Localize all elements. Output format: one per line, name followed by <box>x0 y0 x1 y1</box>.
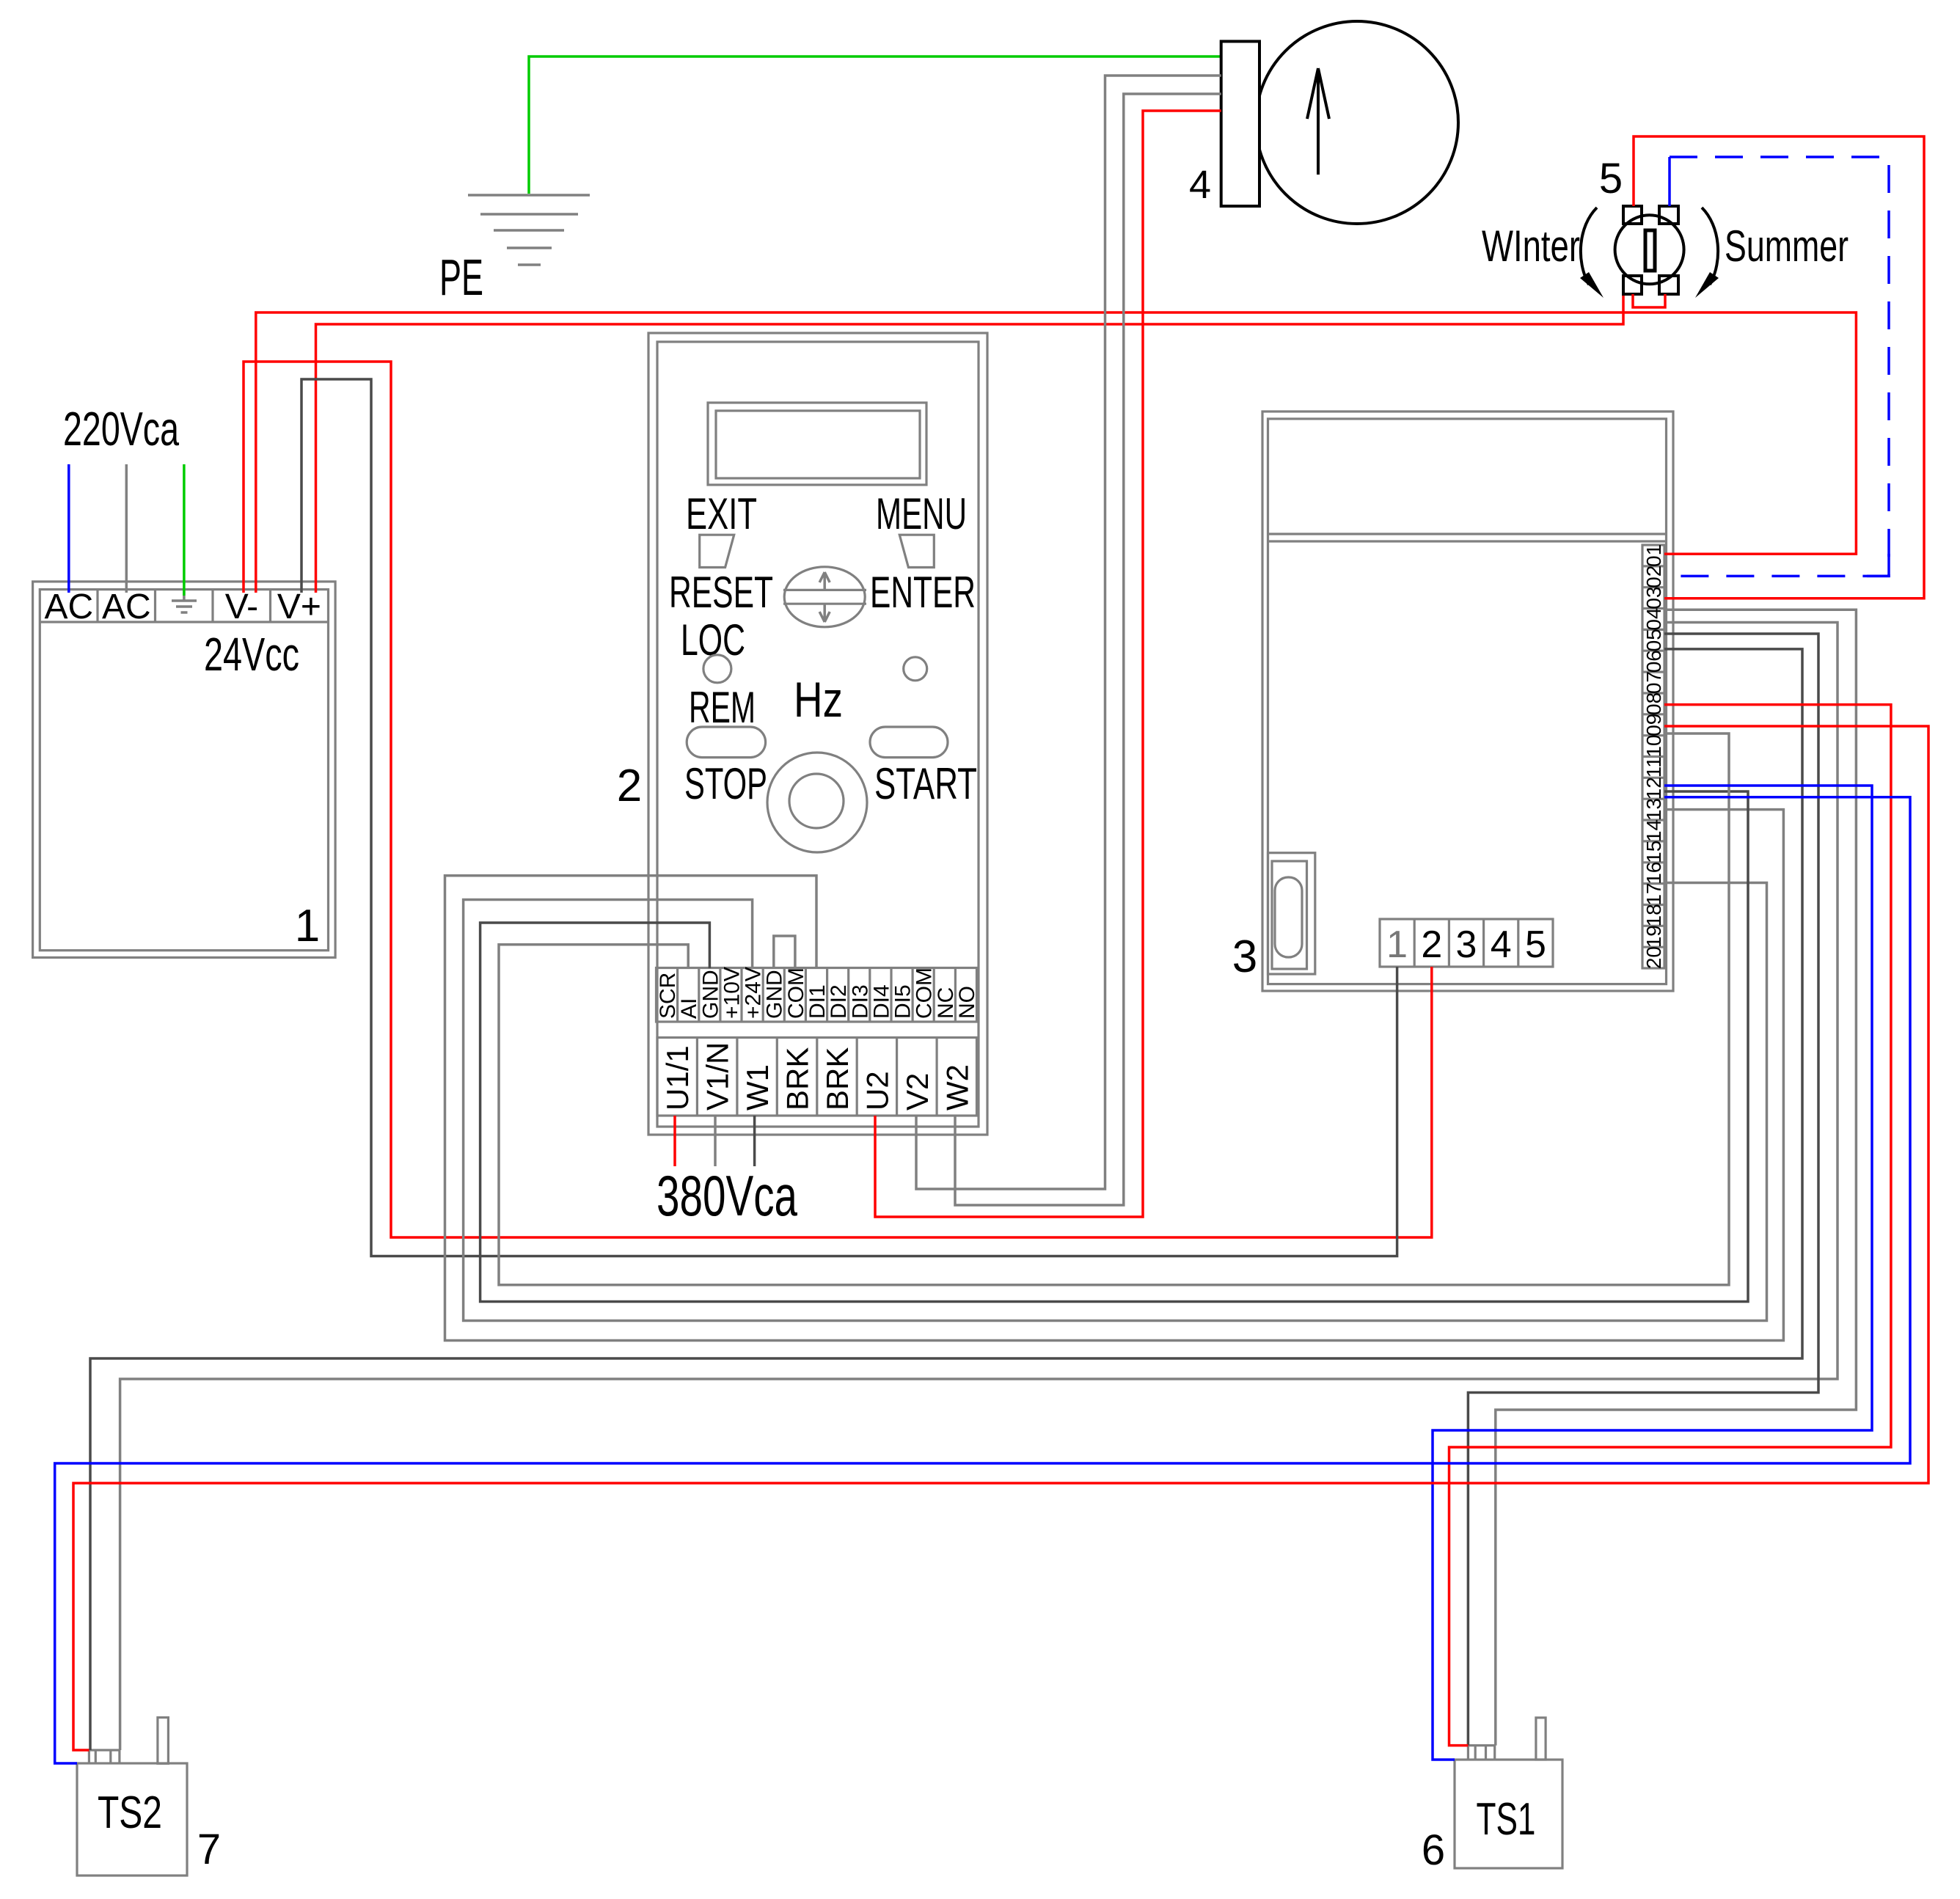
wire blue solid elbow at dashed corner <box>1867 554 1889 576</box>
svg-text:U1/1: U1/1 <box>660 1045 695 1111</box>
ground symbol PE <box>468 195 590 265</box>
svg-text:16: 16 <box>1642 862 1665 885</box>
svg-text:STOP: STOP <box>684 759 767 808</box>
LOC LED <box>703 655 731 683</box>
svg-text:BRK: BRK <box>780 1047 815 1111</box>
START button pill <box>870 727 948 758</box>
controller bottom terminal strip 1-5 <box>1380 919 1553 967</box>
controller top band divider <box>1268 534 1667 541</box>
svg-text:08: 08 <box>1642 692 1665 715</box>
wire PE green to fan motor <box>529 56 1221 194</box>
controller D-sub connector inner <box>1272 861 1307 969</box>
wire blue switch top-right tab vertical <box>1668 157 1671 206</box>
winter rotation arc arrow <box>1581 208 1597 285</box>
svg-text:13: 13 <box>1642 798 1665 821</box>
selector switch key slot <box>1645 230 1655 271</box>
controller 3 outer box <box>1262 411 1673 991</box>
controller terminal strip 01-20 <box>1642 545 1664 968</box>
TS2 pin comb <box>89 1750 119 1763</box>
controller D-sub connector outer <box>1268 853 1315 974</box>
svg-text:+24V: +24V <box>742 967 766 1019</box>
svg-text:V1/N: V1/N <box>701 1042 735 1111</box>
controller D-sub D-shape <box>1275 877 1302 957</box>
temperature sensor TS1 box <box>1455 1760 1562 1868</box>
wire red V+ to switch bottom-left tab <box>316 296 1624 593</box>
drive LCD display inner <box>716 411 920 478</box>
drive control strip cell dividers <box>678 968 956 1022</box>
svg-text:5: 5 <box>1599 155 1623 202</box>
wire 380V into W1 (dark stub) <box>753 1116 756 1166</box>
svg-text:6: 6 <box>1422 1826 1445 1874</box>
controller 3 inner box <box>1268 419 1667 984</box>
wire blue dashed switch to controller terminal 02 <box>1664 157 1889 576</box>
speed knob inner <box>789 774 844 828</box>
navigation wheel ellipse <box>784 567 865 627</box>
svg-text:COM: COM <box>784 967 808 1019</box>
switch contact tab top-right <box>1659 206 1678 224</box>
wire blue controller 12 to TS2 <box>55 797 1910 1763</box>
svg-text:COM: COM <box>913 967 937 1019</box>
wire red fan to U2 <box>875 111 1221 1217</box>
terminal ground symbol in PSU cell <box>172 591 197 612</box>
svg-text:ENTER: ENTER <box>870 568 976 617</box>
svg-text:7: 7 <box>197 1826 221 1873</box>
wire 380V phase into U1/1 (red stub) <box>673 1116 676 1166</box>
right LED <box>904 657 927 681</box>
controller bottom strip dividers <box>1414 919 1518 967</box>
wire 380V neutral into V1/N (gray stub) <box>714 1116 717 1166</box>
svg-text:V-: V- <box>225 588 258 626</box>
svg-text:+10V: +10V <box>720 967 745 1019</box>
svg-text:SCR: SCR <box>656 973 680 1019</box>
drive LCD display outer <box>708 403 926 485</box>
svg-text:06: 06 <box>1642 650 1665 673</box>
svg-text:V+: V+ <box>277 588 321 626</box>
TS2 side tab <box>158 1718 169 1764</box>
svg-text:W1: W1 <box>740 1064 775 1111</box>
svg-text:220Vca: 220Vca <box>63 402 180 455</box>
jumper GND-COM on drive control strip <box>774 936 795 968</box>
svg-text:07: 07 <box>1642 671 1665 694</box>
svg-text:LOC: LOC <box>681 615 745 665</box>
wire red switch top-left tab to controller terminal 03 <box>1634 136 1924 599</box>
svg-text:W2: W2 <box>940 1064 974 1111</box>
svg-text:04: 04 <box>1642 607 1665 630</box>
switch contact tab bottom-left <box>1623 276 1642 294</box>
svg-text:DI5: DI5 <box>891 984 915 1019</box>
svg-text:14: 14 <box>1642 819 1665 842</box>
temperature sensor TS2 box <box>77 1763 187 1876</box>
summer rotation arc arrow <box>1702 208 1718 285</box>
wire gray drive +24V branch <box>464 883 1767 1321</box>
fan motor 4 terminal box <box>1221 41 1259 206</box>
svg-text:GND: GND <box>698 970 723 1019</box>
wire red V- to controller terminal 01 <box>256 312 1857 593</box>
svg-text:TS2: TS2 <box>98 1788 162 1838</box>
wire red switch jumper bottom tabs <box>1633 294 1665 307</box>
wire dark controller 05 to TS2 <box>90 649 1802 1750</box>
wire dark controller 05 to TS1 <box>1468 634 1818 1746</box>
wire 220V earth green into PSU ground cell <box>183 464 186 596</box>
navigation wheel down arrow <box>819 604 830 622</box>
svg-text:EXIT: EXIT <box>686 489 757 538</box>
drive power terminal strip <box>657 1038 977 1116</box>
svg-text:NO: NO <box>955 986 979 1019</box>
svg-text:24Vcc: 24Vcc <box>204 628 299 681</box>
svg-text:380Vca: 380Vca <box>657 1163 797 1228</box>
wire red V- to controller bottom terminal 2 <box>244 362 1432 1237</box>
svg-text:DI2: DI2 <box>827 984 851 1019</box>
svg-text:01: 01 <box>1642 544 1665 567</box>
svg-text:1: 1 <box>1386 923 1408 966</box>
wire gray fan to V2 <box>916 76 1221 1189</box>
svg-text:18: 18 <box>1642 904 1665 926</box>
power supply terminal cell dividers <box>98 590 271 622</box>
svg-text:12: 12 <box>1642 777 1665 800</box>
drive control terminal strip <box>657 968 977 1022</box>
wire red controller 08 to TS1 <box>1449 705 1891 1746</box>
svg-text:5: 5 <box>1525 923 1546 966</box>
svg-text:START: START <box>874 759 977 808</box>
switch contact tab top-left <box>1623 206 1642 224</box>
EXIT softkey trapezoid <box>700 535 734 567</box>
MENU softkey trapezoid <box>899 535 934 567</box>
switch contact tab bottom-right <box>1659 276 1678 294</box>
svg-text:09: 09 <box>1642 714 1665 736</box>
fan motor 4 circle <box>1256 21 1458 224</box>
svg-text:AC: AC <box>44 588 93 626</box>
wire 220V line blue into AC1 <box>67 464 70 593</box>
svg-text:11: 11 <box>1642 756 1665 777</box>
svg-text:03: 03 <box>1642 587 1665 610</box>
wire gray controller 04 to TS1 <box>1496 610 1857 1745</box>
drive power strip cell dividers <box>697 1038 937 1116</box>
svg-text:Summer: Summer <box>1725 222 1849 271</box>
svg-text:MENU: MENU <box>876 489 967 538</box>
frequency drive 2 inner box <box>657 342 979 1127</box>
wire blue controller 12 to TS1 <box>1433 786 1872 1760</box>
controller terminal strip dividers <box>1642 566 1664 947</box>
svg-text:GND: GND <box>763 970 787 1019</box>
wire red controller 09 to TS2 <box>73 726 1928 1750</box>
svg-text:15: 15 <box>1642 841 1665 863</box>
svg-text:1: 1 <box>295 901 320 951</box>
power supply unit 1 outer box <box>33 582 336 958</box>
svg-text:19: 19 <box>1642 925 1665 948</box>
svg-text:10: 10 <box>1642 735 1665 758</box>
svg-text:05: 05 <box>1642 629 1665 651</box>
wire dark V+ to controller bottom terminal 1 <box>301 379 1397 1256</box>
wire dark drive GND branch <box>480 791 1748 1302</box>
svg-text:2: 2 <box>1421 923 1442 966</box>
power supply unit 1 inner box <box>40 590 328 951</box>
svg-text:RESET: RESET <box>669 568 773 617</box>
svg-text:3: 3 <box>1232 932 1257 982</box>
wire gray drive DI1 branch <box>445 810 1784 1341</box>
svg-text:REM: REM <box>689 683 756 732</box>
svg-text:BRK: BRK <box>820 1047 855 1111</box>
TS1 pin comb <box>1468 1746 1494 1760</box>
svg-text:WInter: WInter <box>1482 222 1580 271</box>
svg-text:V2: V2 <box>900 1073 935 1111</box>
svg-text:DI4: DI4 <box>869 984 893 1019</box>
STOP button pill <box>687 727 765 758</box>
svg-text:2: 2 <box>617 761 642 811</box>
svg-text:Hz: Hz <box>794 672 843 728</box>
svg-text:DI1: DI1 <box>805 984 830 1019</box>
svg-text:4: 4 <box>1491 923 1512 966</box>
svg-text:NC: NC <box>934 987 958 1019</box>
svg-text:4: 4 <box>1189 163 1211 207</box>
svg-text:AI: AI <box>677 998 701 1019</box>
wire gray controller 04 to TS2 <box>120 623 1837 1751</box>
speed knob outer <box>767 753 867 852</box>
navigation wheel horizontal band <box>783 590 866 604</box>
svg-text:20: 20 <box>1642 946 1665 969</box>
svg-text:17: 17 <box>1642 882 1665 905</box>
TS1 side tab <box>1536 1718 1546 1760</box>
wire 220V neutral gray into AC2 <box>125 464 128 593</box>
svg-text:U2: U2 <box>860 1071 894 1111</box>
selector switch 5 circle <box>1615 215 1684 284</box>
wire gray fan to W2 <box>955 94 1221 1205</box>
svg-text:02: 02 <box>1642 566 1665 588</box>
navigation wheel up arrow <box>819 572 830 590</box>
svg-text:PE: PE <box>439 249 483 306</box>
fan arrow <box>1307 68 1329 175</box>
svg-text:3: 3 <box>1456 923 1477 966</box>
power supply terminal row divider <box>40 621 328 623</box>
svg-text:TS1: TS1 <box>1477 1794 1536 1845</box>
svg-text:AC: AC <box>102 588 151 626</box>
wire gray drive AI branch <box>499 733 1729 1285</box>
svg-text:DI3: DI3 <box>848 984 872 1019</box>
frequency drive 2 outer box <box>648 333 987 1135</box>
